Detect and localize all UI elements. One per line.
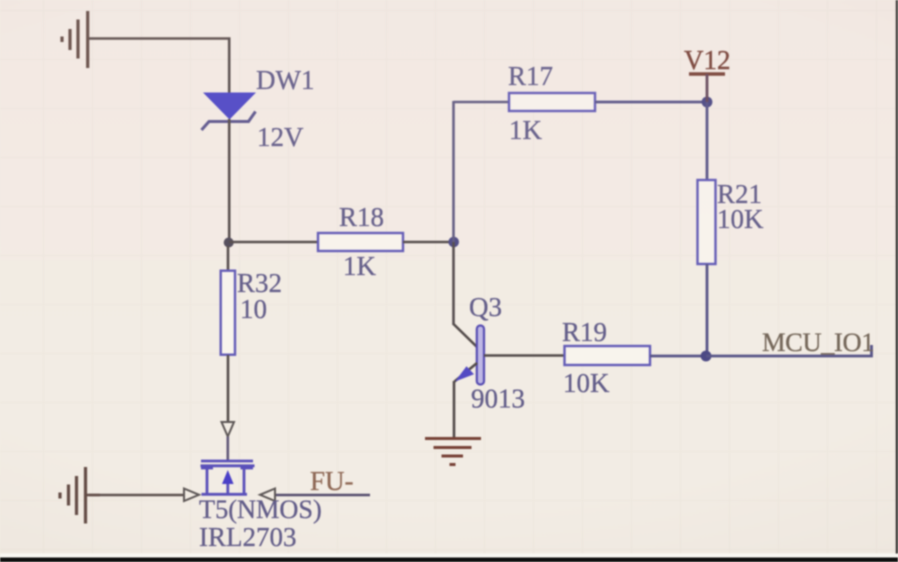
svg-text:T5(NMOS): T5(NMOS) [199, 495, 322, 524]
svg-text:1K: 1K [343, 251, 377, 281]
svg-text:DW1: DW1 [256, 65, 314, 95]
svg-text:10K: 10K [563, 368, 610, 398]
svg-text:R17: R17 [508, 61, 553, 91]
svg-text:IRL2703: IRL2703 [199, 522, 297, 552]
svg-text:10K: 10K [717, 204, 764, 234]
svg-text:FU-: FU- [310, 466, 354, 496]
svg-text:12V: 12V [257, 122, 304, 152]
svg-text:Q3: Q3 [469, 292, 502, 322]
svg-text:MCU_IO1: MCU_IO1 [762, 327, 874, 357]
svg-text:9013: 9013 [471, 384, 525, 414]
svg-text:1K: 1K [509, 115, 543, 145]
svg-text:R18: R18 [339, 202, 384, 232]
svg-text:V12: V12 [684, 45, 731, 75]
svg-text:10: 10 [240, 294, 267, 324]
svg-text:R19: R19 [562, 317, 607, 347]
